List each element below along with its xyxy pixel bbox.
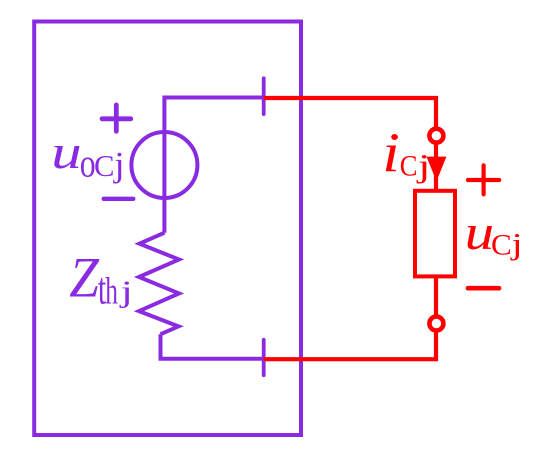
svg-text:Z: Z xyxy=(69,246,100,309)
svg-text:u: u xyxy=(51,125,81,178)
svg-text:o: o xyxy=(80,141,96,185)
svg-text:j: j xyxy=(112,145,124,183)
svg-text:j: j xyxy=(416,147,431,184)
svg-text:h: h xyxy=(105,270,118,312)
svg-text:C: C xyxy=(491,228,512,261)
terminal tick bottom xyxy=(262,340,266,375)
svg-text:u: u xyxy=(465,204,495,260)
svg-text:i: i xyxy=(382,122,400,184)
svg-text:C: C xyxy=(400,150,418,183)
wire: red bottom from load to terminal b xyxy=(264,276,436,359)
load impedance box xyxy=(415,191,455,277)
svg-text:j: j xyxy=(509,227,522,261)
current arrow i_Cj xyxy=(427,157,447,182)
Thevenin equivalent box xyxy=(34,22,301,436)
terminal node bottom xyxy=(429,317,443,331)
svg-text:C: C xyxy=(94,149,114,183)
wire: source top to terminal a xyxy=(164,98,263,233)
wire: resistor bottom to terminal b xyxy=(161,334,264,359)
terminal node top xyxy=(429,129,443,143)
minus sign of source xyxy=(104,197,134,201)
wire: red top from terminal a to load xyxy=(264,98,436,191)
minus sign of load xyxy=(468,286,499,291)
plus sign of source xyxy=(102,105,131,131)
resistor Z_thj xyxy=(139,233,179,335)
voltage source U_oCj xyxy=(131,132,197,198)
plus sign of load xyxy=(468,165,499,194)
svg-text:j: j xyxy=(118,275,132,309)
terminal tick top xyxy=(262,78,266,114)
